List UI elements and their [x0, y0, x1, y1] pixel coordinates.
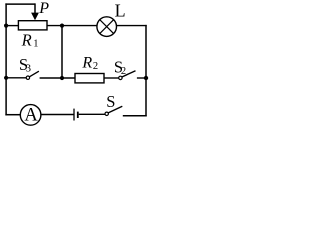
junction node: middle branch / left bus	[4, 76, 8, 80]
wire: S3 contact to R2 left terminal	[40, 77, 76, 79]
svg-text:S: S	[106, 92, 115, 111]
switch S3 blade (open)	[29, 71, 39, 77]
switch S pivot	[105, 112, 108, 115]
svg-text:1: 1	[33, 38, 38, 49]
junction node: top wire / middle-branch tap	[60, 24, 64, 28]
wire: lamp to right bus (top-right corner)	[116, 25, 146, 27]
svg-text:R: R	[21, 31, 32, 50]
wire: right vertical bus	[145, 25, 147, 117]
resistor R1 (rheostat body)	[18, 21, 47, 30]
switch S3 pivot	[26, 76, 29, 79]
slider arrow shaft of rheostat	[34, 3, 36, 13]
battery short plate (-)	[77, 112, 79, 118]
svg-text:R: R	[81, 55, 92, 72]
wire: left vertical bus	[5, 3, 7, 115]
lamp L (circle with cross)	[97, 17, 117, 37]
battery long plate (+)	[73, 109, 75, 121]
junction node: left bus / R1 terminal	[4, 24, 8, 28]
junction node: middle branch / vertical connector	[60, 76, 64, 80]
wire: ammeter to battery positive plate	[41, 114, 74, 116]
svg-text:3: 3	[26, 64, 31, 75]
svg-text:P: P	[38, 0, 49, 17]
resistor R2	[75, 74, 104, 83]
wire: vertical connector from top wire down to middle branch	[61, 26, 63, 78]
svg-text:A: A	[24, 105, 38, 125]
switch S2 pivot	[119, 76, 122, 79]
wire: S2 contact to right bus	[137, 77, 146, 79]
svg-text:L: L	[115, 0, 126, 20]
wire: left bus to switch S3 pivot	[6, 77, 26, 79]
wire: left bus to R1 left terminal	[6, 25, 18, 27]
switch S2 blade (open)	[122, 71, 136, 77]
wire: rheostat top loop horizontal	[5, 3, 35, 5]
wire: battery to switch S pivot	[79, 113, 105, 115]
wire: bottom-left corner to ammeter	[5, 114, 20, 116]
wire: R2 right terminal to switch S2 pivot	[104, 77, 119, 79]
wire: S contact to bottom-right corner	[123, 115, 147, 117]
svg-text:2: 2	[93, 61, 98, 72]
switch S blade (open)	[108, 106, 122, 113]
ammeter A	[20, 105, 41, 126]
junction node: middle branch / right bus	[144, 76, 148, 80]
slider arrowhead P (wiper onto R1)	[31, 13, 39, 21]
wire: R1 right terminal to lamp	[47, 25, 97, 27]
